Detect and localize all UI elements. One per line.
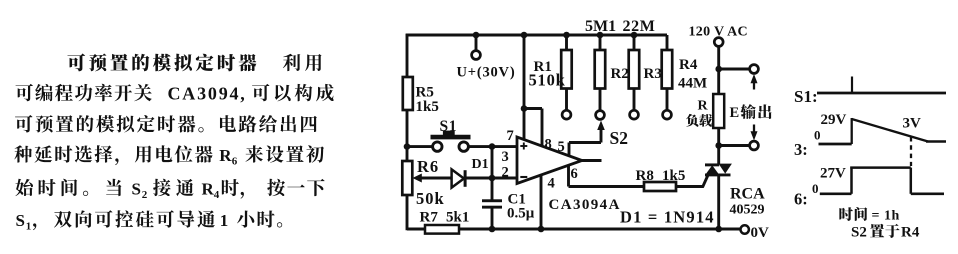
resistor R3: [633, 35, 636, 50]
svg-text:D1: D1: [472, 157, 489, 172]
svg-text:8: 8: [545, 137, 552, 153]
resistor R4: [666, 35, 669, 50]
waveform 3 ramp: [852, 119, 928, 142]
svg-text:R4: R4: [901, 225, 920, 241]
wire to E bottom terminal: [719, 144, 750, 147]
waveform 6 step up: [850, 167, 853, 194]
resistor R2: [599, 35, 602, 50]
wire R8 to triac gate: [676, 185, 704, 188]
paragraph line 4: [14, 145, 32, 162]
svg-text:3V: 3V: [903, 116, 922, 132]
svg-text:S: S: [132, 180, 141, 199]
waveform S1 pulse: [851, 77, 853, 94]
svg-text:CA3094A: CA3094A: [549, 197, 621, 213]
waveform 6 low2: [911, 192, 944, 195]
svg-text:1k5: 1k5: [416, 99, 439, 115]
svg-text:2: 2: [502, 165, 509, 181]
svg-text:50k: 50k: [416, 189, 445, 208]
resistor R8: [644, 182, 676, 191]
svg-text:6:: 6:: [794, 190, 808, 209]
svg-text:4: 4: [548, 176, 555, 192]
E output double arrow: [753, 80, 755, 90]
node pin4 bottom junction: [538, 226, 545, 233]
svg-text:5k1: 5k1: [446, 210, 469, 226]
paragraph line 2: [16, 84, 33, 101]
svg-text:2: 2: [142, 189, 148, 201]
svg-text:R2: R2: [611, 66, 629, 82]
terminal 120VAC: [714, 38, 723, 47]
wire load to triac: [717, 128, 720, 164]
svg-text:22M: 22M: [623, 18, 656, 35]
wiper wire: [418, 177, 453, 180]
triac RCA 40529: [705, 163, 719, 166]
node S1 rail junction: [404, 143, 411, 150]
svg-text:R8: R8: [636, 168, 654, 184]
svg-text:S1: S1: [440, 118, 458, 135]
svg-text:S: S: [16, 211, 25, 230]
svg-text:= 1h: = 1h: [872, 209, 900, 224]
wire to E top terminal: [719, 68, 750, 71]
wire left rail: [406, 34, 409, 231]
wire pin6 down and right: [567, 165, 570, 187]
svg-text:0.5μ: 0.5μ: [507, 206, 535, 222]
wire 120VAC down: [717, 46, 720, 94]
svg-text:1k5: 1k5: [662, 168, 685, 184]
resistor R6 pot: [402, 161, 412, 195]
svg-text:R4: R4: [679, 57, 698, 73]
switch S1 pushbutton: [433, 142, 442, 151]
svg-text:7: 7: [507, 128, 514, 144]
resistor R load: [713, 94, 724, 128]
resistor R5: [403, 77, 413, 110]
resistor R7: [425, 225, 459, 234]
node U+ junction: [473, 32, 480, 39]
waveform 3 low: [819, 143, 852, 146]
waveform 6 step down: [910, 168, 913, 194]
svg-text:S1:: S1:: [794, 87, 818, 106]
node pin7 rail junction: [521, 32, 528, 39]
wire rail to S1: [407, 145, 433, 148]
wire pin5 up: [568, 143, 571, 157]
waveform 6 high: [850, 166, 911, 169]
terminal below R3: [630, 110, 639, 119]
waveform 6 low1: [820, 192, 852, 195]
svg-text:1: 1: [220, 211, 229, 230]
svg-text:S2: S2: [610, 128, 628, 148]
node pin7/pin8 tie: [521, 105, 528, 112]
svg-text:6: 6: [232, 156, 238, 168]
terminal U+ stub: [475, 35, 478, 51]
svg-text:4: 4: [214, 189, 220, 201]
node D1/C1/pin2 junction: [489, 175, 496, 182]
terminal E output bottom: [750, 141, 759, 150]
diode D1: [452, 169, 464, 187]
svg-text:R: R: [219, 146, 232, 165]
svg-text:44M: 44M: [678, 76, 707, 92]
wiper arrowhead: [413, 174, 422, 183]
waveform S1 baseline: [817, 92, 946, 95]
svg-text:R3: R3: [644, 66, 662, 82]
dashed timing line: [910, 137, 912, 166]
svg-text:5: 5: [558, 139, 565, 155]
terminal E output top: [750, 65, 759, 74]
svg-text:RCA: RCA: [730, 186, 765, 203]
paragraph line 1 title: [67, 53, 85, 71]
node load top junction: [715, 66, 722, 73]
svg-text:3: 3: [502, 149, 509, 165]
svg-text:U+(30V): U+(30V): [457, 65, 516, 81]
wire top +30V rail: [406, 34, 667, 37]
wire pin8 branch: [524, 107, 542, 110]
terminal below R4: [663, 110, 672, 119]
svg-text:R7: R7: [420, 210, 439, 226]
wire down to D1 node: [491, 147, 494, 201]
svg-text:D1 = 1N914: D1 = 1N914: [620, 208, 715, 227]
wire output stub: [582, 159, 602, 162]
switch S2 wiper: [600, 129, 603, 143]
waveform 3 tail: [926, 140, 946, 143]
svg-text:S2: S2: [851, 225, 867, 241]
svg-text:E: E: [730, 105, 740, 121]
terminal below R1: [562, 110, 571, 119]
svg-text:40529: 40529: [730, 203, 765, 218]
op-amp U1 CA3094A: [517, 137, 582, 184]
wire pin4 down: [540, 174, 543, 230]
svg-text:6: 6: [571, 166, 578, 182]
resistor R1: [565, 35, 568, 50]
wire S1 to pin3: [468, 145, 517, 148]
svg-text:R: R: [202, 180, 215, 199]
terminal 0V: [741, 225, 749, 233]
node triac top junction: [715, 142, 722, 149]
svg-text:1: 1: [26, 221, 32, 233]
terminal below R2: [596, 111, 605, 120]
svg-text:3:: 3:: [794, 140, 808, 159]
svg-text:CA3094,: CA3094,: [168, 84, 247, 104]
wire pin7 from rail: [523, 35, 526, 140]
svg-text:29V: 29V: [821, 112, 847, 128]
capacitor C1: [482, 199, 502, 202]
node mid junction x492: [489, 143, 496, 150]
label 负载: [686, 114, 698, 127]
svg-text:0: 0: [814, 128, 821, 143]
svg-text:R6: R6: [417, 157, 439, 176]
wire bottom 0V rail: [407, 228, 741, 231]
svg-text:510k: 510k: [529, 71, 566, 90]
terminal U+(30V): [472, 51, 481, 60]
node C1 bottom junction: [489, 226, 496, 233]
waveform 3 step up: [851, 118, 853, 144]
svg-text:27V: 27V: [820, 166, 846, 182]
node triac bottom junction: [715, 226, 722, 233]
wire D1 to pin2: [466, 177, 517, 180]
paragraph line 3: [15, 115, 32, 132]
svg-text:0V: 0V: [751, 225, 770, 241]
svg-text:0: 0: [812, 181, 819, 196]
paragraph line 5: [15, 179, 33, 196]
svg-text:R: R: [698, 99, 709, 114]
label 时间 = 1h: [839, 207, 853, 221]
